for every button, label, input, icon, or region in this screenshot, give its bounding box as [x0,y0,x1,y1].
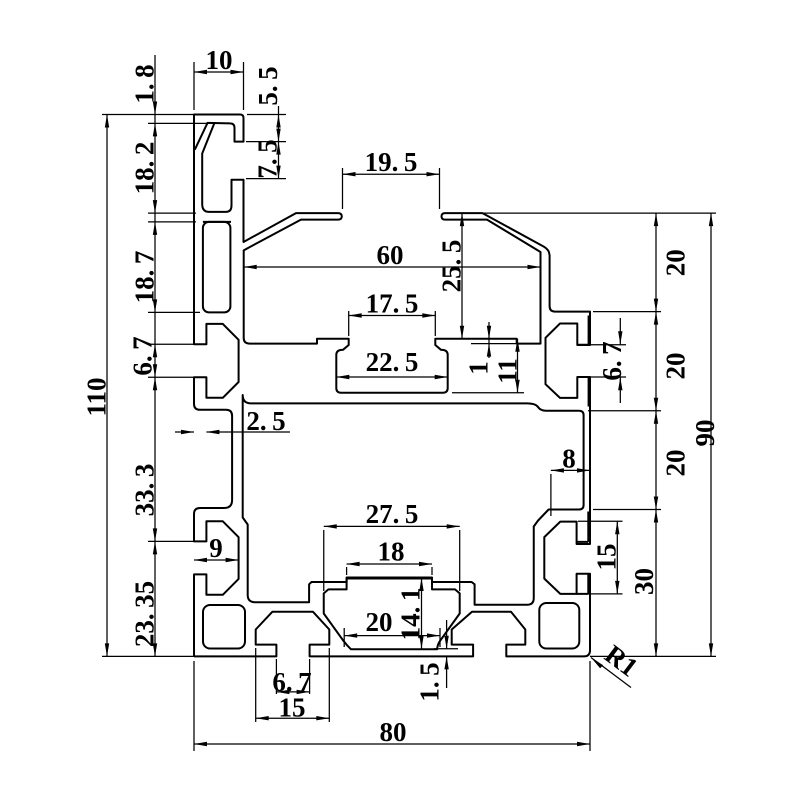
svg-text:17. 5: 17. 5 [366,289,419,319]
left chain x=155 [153,102,157,115]
8 [551,468,564,472]
svg-text:6. 7: 6. 7 [597,341,627,380]
bottom-center tub cavity (20/18/27.5/14.1) [324,578,460,650]
svg-text:90: 90 [690,420,720,447]
18 [347,562,360,566]
svg-text:25. 5: 25. 5 [437,240,467,293]
5.5 / 7.5 x=278.5 [276,115,280,128]
17.5 [349,313,362,317]
svg-text:20: 20 [366,607,393,637]
svg-text:10: 10 [206,45,233,75]
svg-text:33. 3: 33. 3 [130,464,160,517]
svg-text:15: 15 [592,544,622,571]
svg-text:19. 5: 19. 5 [365,147,418,177]
svg-text:18. 2: 18. 2 [130,142,160,195]
top-left C-slot cavity, roof slopes, 19.5 top mouth, chambers floor, right T-slots [194,124,590,657]
15 bottom [256,716,269,720]
svg-text:6. 7: 6. 7 [128,336,158,375]
15 right x=617.3 [615,521,619,534]
svg-text:20: 20 [661,450,691,477]
left wall hollow cavity [203,222,231,313]
svg-text:80: 80 [380,717,407,747]
svg-text:1: 1 [464,361,494,375]
svg-text:20: 20 [661,249,691,276]
dimension lines (all chains) [107,55,711,744]
dimension extension lines [102,62,716,751]
27.5 [324,524,337,528]
1.5 x=447 outside [444,636,448,649]
right chain x=656 [654,213,658,226]
19.5 [343,172,356,176]
svg-text:23. 35: 23. 35 [130,581,160,647]
10 [194,70,207,74]
svg-text:7. 5: 7. 5 [253,139,283,178]
svg-text:22. 5: 22. 5 [366,347,419,377]
svg-text:15: 15 [279,693,306,723]
11 x=529.8 [515,339,519,352]
9 [194,558,207,562]
arrows [105,70,713,746]
svg-text:1. 8: 1. 8 [130,64,160,103]
svg-text:30: 30 [629,568,659,595]
svg-text:18. 7: 18. 7 [130,251,160,304]
svg-text:20: 20 [661,353,691,380]
90 x=711 [709,213,713,226]
right T-slot nut-groove ears [577,316,590,594]
dimension text labels [82,45,721,747]
bottom-left square cavity [203,605,245,649]
svg-text:5. 5: 5. 5 [253,66,283,105]
2.5 outside [181,430,194,434]
svg-text:1. 5: 1. 5 [415,662,445,701]
svg-text:11: 11 [493,358,523,384]
22.5 [336,375,349,379]
svg-text:14. 1: 14. 1 [396,588,426,641]
svg-text:2. 5: 2. 5 [246,406,285,436]
20 bottom [344,633,357,637]
80 [194,742,207,746]
web line under C-slot cavity [203,221,231,223]
14.1 x=429 [419,578,423,591]
svg-text:27. 5: 27. 5 [366,499,419,529]
6.7 bottom outside [276,690,289,694]
R1 leader [591,658,603,669]
svg-text:18: 18 [378,537,405,567]
svg-text:8: 8 [562,444,576,474]
25.5 x=462 [460,213,464,226]
profile outer perimeter (left wall, slots, bottom T-slots) [194,115,244,657]
svg-text:110: 110 [82,377,112,416]
1 x=490.4 [487,326,491,339]
lower chamber cavity [243,395,584,605]
6.7 right x=620.3 outside [618,331,622,344]
svg-text:9: 9 [209,533,223,563]
svg-text:60: 60 [377,240,404,270]
60 [244,265,257,269]
110 x=107 [105,115,109,128]
bottom-right square cavity [539,603,579,649]
